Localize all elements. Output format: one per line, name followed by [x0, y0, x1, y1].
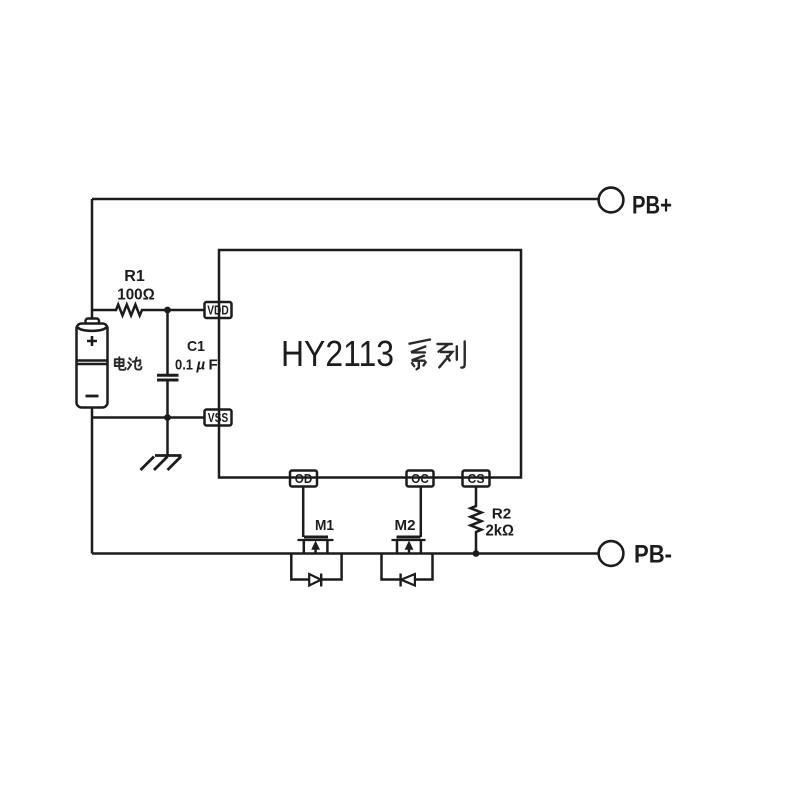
transistor M2 drain stub [420, 540, 423, 554]
svg-text:OC: OC [411, 471, 429, 486]
svg-text:M2: M2 [395, 517, 416, 534]
svg-text:PB-: PB- [634, 541, 672, 569]
label battery (dianchi) char dian [115, 357, 126, 370]
diode D2 loop right [415, 554, 433, 580]
node junction R1/C1/VDD [164, 307, 171, 314]
wire VSS rail from battery to VSS pin [92, 416, 205, 419]
svg-text:PB+: PB+ [632, 192, 672, 220]
label battery (dianchi) char chi [128, 357, 141, 369]
svg-text:HY2113: HY2113 [281, 333, 394, 374]
svg-text:VDD: VDD [207, 303, 229, 318]
svg-text:F: F [209, 357, 218, 374]
svg-text:VSS: VSS [208, 410, 229, 425]
svg-text:CS: CS [468, 471, 485, 486]
pin OD box [290, 471, 317, 487]
diode D2 loop left [382, 554, 401, 580]
svg-text:100Ω: 100Ω [117, 287, 155, 304]
svg-text:M1: M1 [315, 517, 334, 534]
battery BT1 top rim [78, 328, 107, 331]
diode D1 loop left [291, 554, 309, 580]
ground [141, 456, 182, 471]
battery BT1 minus mark [86, 395, 99, 398]
label xilie char xi [410, 340, 431, 370]
transistor M2 source stub [396, 540, 399, 554]
capacitor C1 bottom lead [166, 382, 169, 418]
svg-text:2kΩ: 2kΩ [486, 523, 515, 540]
diode D1 loop right [321, 554, 341, 580]
wire battery negative to bottom rail [91, 408, 94, 554]
terminal PB+ [599, 188, 624, 213]
transistor M2 gate bar [397, 536, 421, 539]
battery BT1 label band [77, 361, 107, 365]
wire ground stem [166, 418, 169, 456]
wire left vertical from top rail down to battery positive cap [91, 199, 94, 319]
diode D2 cathode bar [399, 574, 401, 587]
label xilie char lie [438, 342, 465, 368]
resistor R1 [92, 305, 205, 316]
pin VDD box [205, 302, 232, 318]
terminal PB- [599, 541, 624, 566]
battery BT1 body [77, 324, 108, 408]
diode D2 triangle [401, 574, 415, 586]
pin VSS box [205, 410, 232, 426]
transistor M1 gate wire from OD [302, 487, 305, 538]
svg-text:R1: R1 [124, 268, 145, 285]
wire top rail from battery+ to PB+ [92, 198, 598, 201]
wire bottom rail to PB- [92, 552, 599, 555]
battery BT1 positive button [86, 319, 100, 327]
transistor M1 body arrow [311, 541, 320, 550]
svg-text:C1: C1 [187, 338, 205, 355]
pin OC box [407, 471, 434, 487]
capacitor C1 plates [157, 375, 179, 380]
node junction R2/bottom rail [473, 550, 480, 557]
capacitor C1 top lead [166, 310, 169, 374]
svg-text:R2: R2 [492, 506, 512, 523]
node junction C1/VSS/ground [164, 414, 171, 421]
pin CS box [463, 471, 490, 487]
transistor M1 source stub [303, 540, 306, 554]
transistor M1 gate bar [304, 536, 328, 539]
resistor R2 [471, 487, 482, 554]
svg-text:OD: OD [295, 471, 313, 486]
svg-text:0.1: 0.1 [175, 357, 193, 374]
battery BT1 plus mark [87, 336, 97, 346]
svg-text:µ: µ [196, 357, 206, 374]
transistor M2 body arrow [405, 541, 414, 550]
diode D1 triangle [309, 574, 321, 586]
transistor M2 channel bar [392, 539, 426, 541]
transistor M1 drain stub [326, 540, 329, 554]
diode D1 cathode bar [320, 574, 322, 587]
IC U1 HY2113 box [219, 250, 521, 478]
transistor M2 gate wire from OC [420, 487, 423, 538]
transistor M1 channel bar [298, 539, 334, 541]
